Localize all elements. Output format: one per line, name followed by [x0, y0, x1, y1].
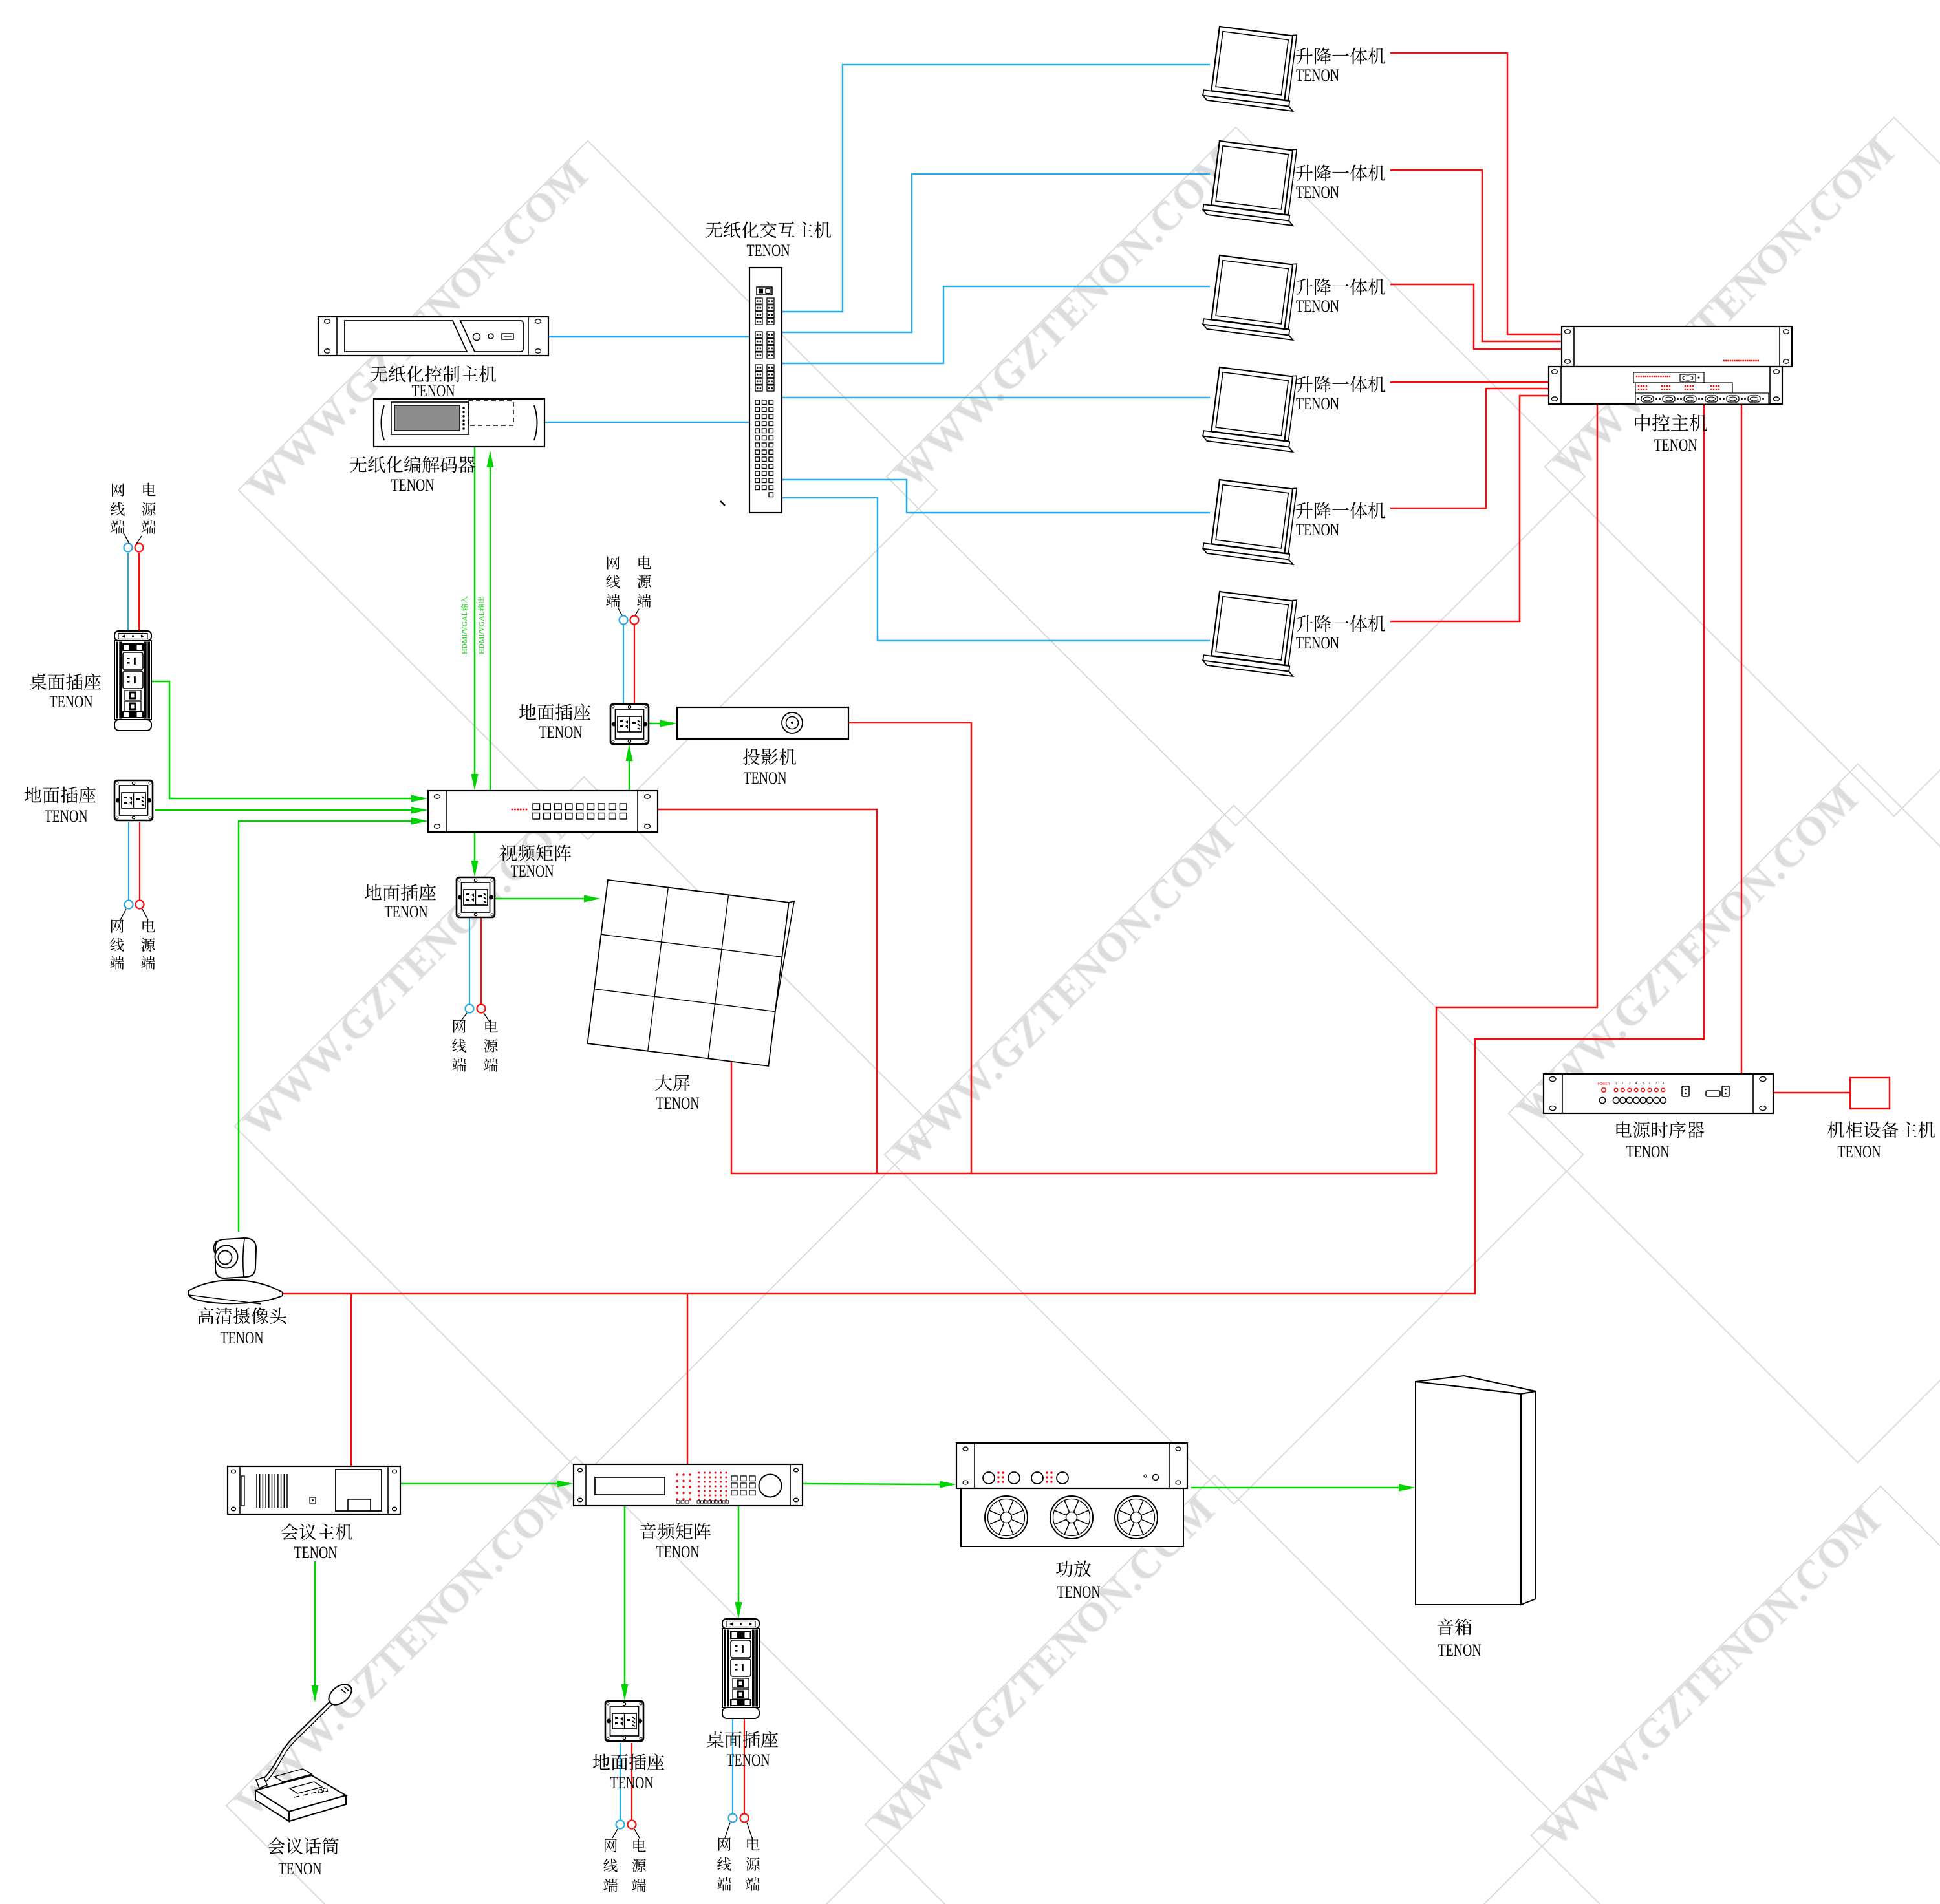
wire red monitor 4 to central control [1390, 381, 1549, 383]
label terminals D power [484, 1015, 499, 1075]
device monitor 5 lifting all-in-one 升降一体机 [1202, 477, 1302, 564]
wire green HDMI/VGA input codec to matrix [474, 447, 476, 778]
device monitor 2 lifting all-in-one 升降一体机 [1202, 138, 1302, 225]
wire blue network stub floor socket 1 [128, 822, 129, 900]
node network terminal F [729, 1814, 737, 1823]
svg-text:端: 端 [717, 1873, 732, 1894]
device U2 paperless codec 无纸化编解码器 [374, 399, 544, 447]
svg-text:TENON: TENON [45, 807, 88, 826]
wire blue switch to monitor 1 [782, 65, 1210, 312]
wire red monitor 3 to central control [1390, 284, 1562, 349]
wire green desktop socket 1 to video matrix [151, 681, 415, 798]
wire green conference host to microphone [314, 1561, 316, 1689]
label terminals B power [141, 915, 156, 973]
svg-text:地面插座: 地面插座 [519, 699, 591, 725]
wire red power stub floor socket 3 [480, 918, 482, 1004]
svg-text:源: 源 [632, 1854, 647, 1876]
svg-text:端: 端 [452, 1054, 467, 1075]
svg-text:网: 网 [717, 1833, 732, 1854]
svg-text:TENON: TENON [747, 241, 790, 260]
device monitor 4 lifting all-in-one 升降一体机 [1202, 365, 1302, 451]
wire red branch to audio matrix [687, 1294, 689, 1464]
device U9 conference host 会议主机 [228, 1466, 400, 1514]
label terminals F network [717, 1833, 732, 1894]
svg-text:TENON: TENON [1838, 1142, 1881, 1161]
svg-text:6: 6 [1649, 1082, 1651, 1086]
svg-text:TENON: TENON [656, 1094, 700, 1113]
wire blue switch to monitor 2 [782, 174, 1210, 332]
svg-text:源: 源 [637, 570, 652, 592]
svg-text:无纸化编解码器: 无纸化编解码器 [349, 451, 476, 477]
wire red power sequencer to cabinet host [1773, 1092, 1850, 1094]
node network terminal C [620, 616, 628, 625]
label terminals E power [632, 1834, 647, 1896]
svg-text:音频矩阵: 音频矩阵 [639, 1518, 711, 1544]
svg-text:端: 端 [141, 952, 156, 973]
device U3 paperless interactive host 无纸化交互主机 [749, 268, 782, 513]
svg-text:端: 端 [111, 516, 125, 537]
wire green matrix down to floor socket 3 [474, 832, 476, 864]
wire red monitor 2 to central control [1390, 170, 1562, 341]
wire red projector branch [849, 723, 971, 1173]
svg-text:电源时序器: 电源时序器 [1614, 1117, 1705, 1142]
device floor socket 地面插座 S2 [610, 704, 649, 744]
svg-text:电: 电 [484, 1015, 499, 1036]
device floor socket 地面插座 S4 [605, 1701, 643, 1741]
svg-text:HDMI/VGAL输入: HDMI/VGAL输入 [460, 596, 469, 654]
node power terminal F [740, 1814, 749, 1823]
svg-text:TENON: TENON [1296, 520, 1339, 539]
wire blue switch to monitor 5 [782, 480, 1210, 513]
svg-text:会议主机: 会议主机 [281, 1519, 353, 1545]
device U1 paperless control host 无纸化控制主机 [318, 317, 548, 356]
wire red video matrix branch [658, 809, 877, 1173]
svg-text:网: 网 [111, 478, 125, 500]
node power terminal A [135, 544, 144, 552]
svg-text:机柜设备主机: 机柜设备主机 [1827, 1117, 1935, 1142]
device floor socket 地面插座 S1 [114, 780, 153, 820]
svg-text:端: 端 [632, 1874, 647, 1896]
label terminals A power [142, 478, 156, 537]
svg-text:地面插座: 地面插座 [592, 1749, 665, 1775]
svg-text:TENON: TENON [391, 476, 435, 495]
svg-text:POWER: POWER [1598, 1082, 1610, 1086]
svg-text:1: 1 [1615, 1082, 1617, 1086]
device U7 big screen 大屏 [587, 878, 794, 1067]
wire red power stub floor socket 2 [634, 625, 635, 704]
svg-text:TENON: TENON [1626, 1142, 1670, 1161]
wire green conference host to audio matrix [400, 1483, 561, 1485]
device monitor 3 lifting all-in-one 升降一体机 [1202, 253, 1302, 339]
svg-text:TENON: TENON [412, 381, 455, 400]
svg-text:TENON: TENON [1438, 1641, 1482, 1660]
svg-text:TENON: TENON [727, 1751, 770, 1770]
svg-text:TENON: TENON [1296, 634, 1339, 652]
svg-text:8: 8 [1663, 1082, 1665, 1086]
svg-text:TENON: TENON [1296, 297, 1339, 316]
node power terminal B [136, 901, 144, 909]
wire red power stub floor socket 4 [631, 1743, 632, 1820]
svg-text:线: 线 [717, 1853, 732, 1874]
svg-text:大屏: 大屏 [654, 1069, 691, 1095]
svg-text:4: 4 [1635, 1082, 1637, 1086]
svg-text:TENON: TENON [50, 692, 93, 711]
tick mark [720, 501, 725, 506]
wire blue network stub desktop socket 1 [127, 553, 129, 631]
svg-text:投影机: 投影机 [742, 743, 797, 769]
svg-text:会议话筒: 会议话筒 [267, 1833, 339, 1859]
wire blue control host to switch [548, 336, 749, 338]
wire green amplifier to speaker [1191, 1487, 1403, 1489]
node network terminal E [616, 1821, 625, 1829]
label terminals C power [637, 551, 652, 611]
device U4 central control host 中控主机 upper rack [1562, 326, 1792, 367]
svg-text:桌面插座: 桌面插座 [29, 669, 102, 694]
node power terminal C [630, 616, 639, 625]
wire red power stub desktop socket 5 [744, 1717, 745, 1813]
device U4 central control host lower rack [1549, 367, 1782, 404]
wire green audio matrix to floor socket 4 [624, 1506, 626, 1688]
label terminals B network [110, 915, 125, 973]
svg-text:升降一体机: 升降一体机 [1295, 43, 1386, 69]
device desktop socket 桌面插座 D1 [114, 631, 151, 731]
svg-text:端: 端 [637, 590, 652, 611]
svg-text:WWW.GZTENON.COM: WWW.GZTENON.COM [887, 138, 1245, 496]
wire green floor socket 1 to video matrix [155, 809, 415, 811]
device floor socket 地面插座 S3 [457, 877, 495, 917]
device U13 speaker 音箱 [1416, 1376, 1536, 1605]
svg-text:端: 端 [603, 1874, 618, 1896]
svg-text:WWW.GZTENON.COM: WWW.GZTENON.COM [1545, 128, 1903, 486]
svg-text:升降一体机: 升降一体机 [1295, 610, 1386, 636]
svg-text:HDMI/VGAL输出: HDMI/VGAL输出 [477, 596, 486, 654]
svg-text:地面插座: 地面插座 [24, 782, 96, 808]
device U6 projector 投影机 [677, 707, 848, 739]
wire green floor socket 3 to big screen [495, 898, 588, 900]
svg-text:升降一体机: 升降一体机 [1295, 273, 1386, 299]
device desktop socket 桌面插座 D5 [722, 1619, 759, 1718]
wire blue codec to switch [544, 422, 749, 423]
wire green audio matrix to desktop socket 5 [738, 1506, 740, 1606]
wire blue switch to monitor 6 [782, 498, 1210, 641]
label terminals D network [452, 1015, 467, 1075]
device U11 conference microphone 会议话筒 [255, 1680, 355, 1821]
svg-text:电: 电 [746, 1833, 760, 1854]
svg-text:5: 5 [1643, 1082, 1644, 1086]
svg-text:TENON: TENON [511, 862, 554, 881]
device U15 cabinet equipment host 机柜设备主机 [1850, 1078, 1890, 1109]
node network terminal D [466, 1005, 474, 1013]
wire red power stub floor socket 1 [139, 822, 140, 900]
svg-text:WWW.GZTENON.COM: WWW.GZTENON.COM [885, 816, 1243, 1174]
wire green matrix up to floor socket 2 [629, 757, 630, 791]
node power terminal E [628, 1821, 636, 1829]
svg-text:源: 源 [484, 1034, 499, 1056]
svg-text:TENON: TENON [744, 769, 787, 787]
svg-text:音箱: 音箱 [1436, 1614, 1472, 1640]
svg-text:TENON: TENON [1296, 394, 1339, 413]
wire blue network stub desktop socket 5 [732, 1717, 733, 1813]
svg-text:无纸化交互主机: 无纸化交互主机 [705, 217, 832, 242]
wire green HDMI/VGA output matrix to codec [490, 464, 491, 791]
wire red central control to power sequencer [1741, 404, 1743, 1074]
svg-text:功放: 功放 [1055, 1556, 1092, 1581]
svg-text:TENON: TENON [1296, 183, 1339, 202]
wire blue switch to monitor 3 [782, 286, 1210, 363]
svg-text:TENON: TENON [1296, 66, 1339, 85]
wire green audio matrix to amplifier [803, 1484, 943, 1484]
svg-text:TENON: TENON [610, 1773, 654, 1792]
wire blue network stub floor socket 4 [620, 1743, 621, 1820]
svg-text:线: 线 [452, 1034, 467, 1056]
svg-text:TENON: TENON [294, 1543, 338, 1562]
svg-text:线: 线 [603, 1854, 618, 1876]
wire blue switch to monitor 4 [782, 397, 1210, 399]
wire green camera to video matrix [239, 821, 415, 1232]
svg-text:桌面插座: 桌面插座 [706, 1726, 779, 1752]
svg-text:WWW.GZTENON.COM: WWW.GZTENON.COM [1531, 1497, 1890, 1855]
svg-text:升降一体机: 升降一体机 [1295, 160, 1386, 186]
device monitor 1 lifting all-in-one 升降一体机 [1202, 24, 1302, 111]
svg-text:3: 3 [1629, 1082, 1631, 1086]
node network terminal B [125, 901, 133, 909]
node power terminal D [477, 1005, 486, 1013]
svg-text:端: 端 [142, 516, 156, 537]
device U12 amplifier 功放 [956, 1443, 1187, 1546]
wire red central control to big screen [731, 404, 1597, 1173]
svg-text:TENON: TENON [221, 1329, 264, 1347]
svg-text:TENON: TENON [539, 723, 583, 742]
svg-text:7: 7 [1655, 1082, 1657, 1086]
svg-text:2: 2 [1622, 1082, 1624, 1086]
svg-text:高清摄像头: 高清摄像头 [197, 1303, 287, 1329]
label terminals E network [603, 1834, 618, 1896]
label terminals A network [111, 478, 125, 537]
svg-text:电: 电 [142, 478, 156, 500]
wire green floor socket 2 to projector [649, 723, 664, 725]
device monitor 6 lifting all-in-one 升降一体机 [1202, 589, 1302, 676]
wire red power stub desktop socket 1 [138, 553, 140, 631]
svg-text:TENON: TENON [1654, 436, 1697, 455]
svg-text:升降一体机: 升降一体机 [1295, 371, 1386, 397]
svg-text:源: 源 [746, 1853, 760, 1874]
label terminals F power [746, 1833, 760, 1894]
wire red monitor 6 to central control [1390, 396, 1549, 621]
svg-text:网: 网 [452, 1015, 467, 1036]
svg-text:线: 线 [606, 570, 621, 592]
device U10 audio matrix 音频矩阵 [574, 1464, 803, 1506]
node network terminal A [124, 544, 133, 552]
wire blue network stub floor socket 2 [623, 625, 624, 704]
svg-text:端: 端 [746, 1873, 760, 1894]
wire red monitor 1 to central control [1390, 53, 1562, 334]
svg-text:TENON: TENON [1057, 1583, 1101, 1601]
svg-text:TENON: TENON [656, 1543, 700, 1561]
svg-text:TENON: TENON [385, 903, 428, 921]
svg-text:地面插座: 地面插座 [364, 879, 436, 905]
device U5 video matrix 视频矩阵 [428, 791, 658, 832]
wire red branch to conference host [350, 1294, 352, 1466]
wire red monitor 5 to central control [1390, 389, 1549, 508]
svg-text:端: 端 [110, 952, 125, 973]
wire red central control to camera [283, 404, 1704, 1294]
svg-text:网: 网 [603, 1834, 618, 1856]
svg-text:TENON: TENON [279, 1859, 322, 1878]
svg-text:电: 电 [632, 1834, 647, 1856]
svg-text:端: 端 [606, 590, 621, 611]
device U14 power sequencer 电源时序器 [1544, 1074, 1773, 1113]
wire blue network stub floor socket 3 [469, 918, 470, 1004]
label terminals C network [606, 551, 621, 611]
svg-text:端: 端 [484, 1054, 499, 1075]
svg-text:中控主机: 中控主机 [1633, 409, 1708, 436]
device U8 HD camera 高清摄像头 [188, 1238, 283, 1304]
svg-text:升降一体机: 升降一体机 [1295, 497, 1386, 523]
